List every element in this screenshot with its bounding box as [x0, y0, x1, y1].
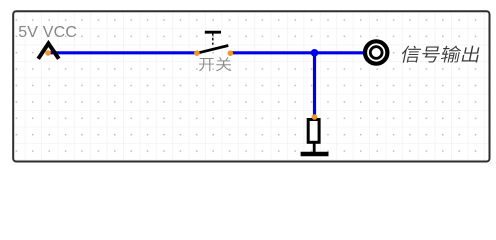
power flag VCC pin: [45, 50, 51, 56]
connector J1 outer ring: [365, 41, 387, 63]
switch S1 actuator bar: [205, 31, 221, 34]
wire W3 junction down to resistor: [313, 53, 316, 116]
switch S1 pin 1: [194, 50, 200, 56]
switch label 开关: [199, 57, 231, 71]
resistor R1 body: [308, 120, 319, 143]
wire W2 switch pin2 to connector: [230, 51, 365, 54]
svg-text:5V VCC: 5V VCC: [18, 24, 77, 41]
wire W1 VCC to switch pin1: [48, 51, 197, 54]
ground bar: [301, 152, 329, 157]
connector J1 inner ring: [370, 47, 382, 59]
switch S1 actuator dashed line: [212, 33, 214, 45]
junction node: [311, 49, 319, 57]
power flag VCC chevron: [38, 44, 59, 59]
switch S1 pin 2: [228, 50, 234, 56]
switch S1 lever: [197, 46, 228, 54]
resistor R1 pin: [312, 114, 318, 120]
ground stem: [313, 143, 316, 152]
connector label 信号输出: [400, 46, 481, 63]
